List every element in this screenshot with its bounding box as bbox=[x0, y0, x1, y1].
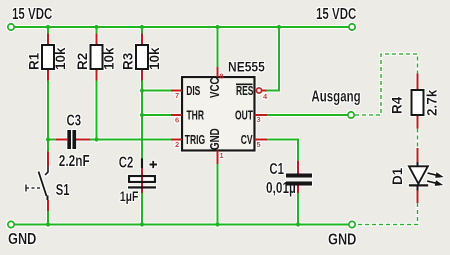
junction node A C3 bbox=[46, 137, 50, 141]
wire R1 bottom to node A bbox=[47, 80, 49, 152]
wire OUT net bbox=[267, 114, 348, 116]
svg-text:THR: THR bbox=[187, 109, 205, 123]
terminal GND left bbox=[8, 221, 14, 227]
junction R2 top bbox=[94, 25, 98, 29]
wire CV net bbox=[267, 140, 298, 162]
pin VCC 8 bbox=[209, 67, 224, 98]
wire VCC drop pin8 bbox=[217, 26, 219, 67]
junction S1 bottom rail bbox=[46, 222, 50, 226]
svg-text:DIS: DIS bbox=[186, 85, 200, 99]
wire top rail 15VDC bbox=[11, 26, 352, 28]
wire bottom rail GND bbox=[11, 224, 349, 226]
svg-text:2.7k: 2.7k bbox=[425, 89, 440, 116]
svg-text:GND: GND bbox=[209, 128, 222, 150]
svg-text:C2: C2 bbox=[119, 153, 134, 171]
svg-text:D1: D1 bbox=[390, 167, 405, 185]
capacitor C1 bbox=[266, 159, 312, 196]
junction C1 bottom rail bbox=[296, 222, 300, 226]
junction R1 top bbox=[46, 25, 50, 29]
junction DIS bbox=[140, 88, 144, 92]
wire GND pin1 drop bbox=[217, 164, 219, 226]
pin THR 6 bbox=[171, 109, 204, 125]
wire RES to rail bbox=[266, 27, 279, 91]
svg-text:10k: 10k bbox=[147, 47, 162, 70]
svg-text:OUT: OUT bbox=[235, 109, 253, 123]
junction VCC top bbox=[215, 25, 219, 29]
resistor R1 bbox=[27, 34, 69, 81]
capacitor C3 bbox=[56, 111, 90, 170]
svg-text:Ausgang: Ausgang bbox=[311, 87, 360, 105]
pin CV 5 bbox=[241, 134, 267, 149]
junction C2 bottom rail bbox=[140, 222, 144, 226]
wire R3 bottom to DIS bbox=[141, 80, 143, 91]
svg-text:R3: R3 bbox=[121, 52, 136, 70]
junction R3 top bbox=[140, 25, 144, 29]
wire dashed D1 to GND bbox=[356, 203, 418, 225]
terminal 15 VDC left bbox=[8, 24, 14, 30]
svg-text:NE555: NE555 bbox=[228, 59, 265, 75]
wire R2 top drop bbox=[96, 26, 98, 34]
svg-text:15 VDC: 15 VDC bbox=[12, 4, 52, 22]
svg-text:CV: CV bbox=[241, 134, 253, 148]
svg-text:C1: C1 bbox=[269, 159, 284, 177]
junction GND pin bottom rail bbox=[215, 222, 219, 226]
svg-text:1µF: 1µF bbox=[120, 189, 139, 204]
terminal 15 VDC right bbox=[349, 24, 355, 30]
resistor R2 bbox=[75, 34, 117, 81]
svg-text:C3: C3 bbox=[67, 111, 82, 129]
svg-text:3: 3 bbox=[257, 115, 261, 124]
junction THR bbox=[140, 113, 144, 117]
capacitor C2 electrolytic bbox=[119, 153, 157, 205]
svg-text:1: 1 bbox=[220, 151, 224, 160]
svg-text:RES: RES bbox=[236, 85, 253, 99]
wire R1 top drop bbox=[47, 26, 49, 34]
resistor R4 bbox=[390, 74, 440, 129]
wire dashed Ausgang to R4 bbox=[355, 54, 418, 115]
svg-text:10k: 10k bbox=[53, 47, 68, 70]
pin OUT 3 bbox=[235, 109, 267, 124]
svg-text:10k: 10k bbox=[102, 47, 117, 70]
pin TRIG 2 bbox=[171, 134, 205, 150]
svg-text:2: 2 bbox=[175, 140, 179, 149]
svg-text:R1: R1 bbox=[27, 52, 42, 70]
wire DIS-THR-C2 vertical bbox=[141, 91, 143, 159]
resistor R3 bbox=[121, 34, 163, 81]
svg-text:VCC: VCC bbox=[209, 77, 222, 98]
junction node B TRIG bbox=[94, 137, 98, 141]
pin RES 4 inverted bbox=[236, 84, 268, 101]
svg-text:2.2nF: 2.2nF bbox=[59, 151, 90, 169]
svg-text:S1: S1 bbox=[56, 180, 70, 198]
svg-text:15 VDC: 15 VDC bbox=[316, 4, 356, 22]
wire R2 bottom to node B bbox=[96, 80, 98, 140]
pin DIS 7 bbox=[171, 85, 200, 101]
svg-text:5: 5 bbox=[257, 140, 261, 149]
terminal Ausgang bbox=[348, 112, 354, 118]
junction RES top bbox=[277, 25, 281, 29]
IC NE555 U1 box bbox=[182, 59, 265, 151]
wire C3 left stub bbox=[48, 139, 56, 141]
wire R3 top drop bbox=[141, 26, 143, 34]
svg-text:GND: GND bbox=[328, 231, 356, 249]
wire dashed R4 to D1 bbox=[417, 129, 419, 149]
svg-text:7: 7 bbox=[175, 91, 179, 100]
wire DIS net bbox=[142, 90, 171, 92]
svg-text:R4: R4 bbox=[390, 96, 405, 114]
wire THR net bbox=[142, 114, 171, 116]
svg-text:6: 6 bbox=[175, 116, 179, 125]
svg-text:8: 8 bbox=[220, 72, 224, 81]
wire TRIG net bbox=[97, 139, 172, 141]
LED D1 bbox=[390, 148, 445, 203]
svg-text:R2: R2 bbox=[75, 53, 90, 70]
wire C2 bottom bbox=[141, 193, 143, 226]
svg-text:0,01µ: 0,01µ bbox=[266, 178, 296, 196]
wire S1 bottom bbox=[47, 211, 49, 226]
wire C1 bottom bbox=[297, 193, 299, 226]
svg-text:GND: GND bbox=[8, 231, 36, 249]
pin GND 1 bbox=[209, 128, 224, 164]
svg-text:TRIG: TRIG bbox=[185, 134, 205, 148]
terminal GND right bbox=[349, 221, 355, 227]
wire C3 right to node B bbox=[90, 139, 97, 141]
switch S1 bbox=[26, 152, 70, 212]
